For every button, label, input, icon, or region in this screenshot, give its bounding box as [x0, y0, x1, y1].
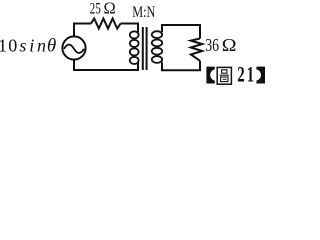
- svg-text:Ω: Ω: [222, 36, 237, 56]
- svg-text:Ω: Ω: [104, 0, 116, 18]
- wire bottom-left segment: [74, 60, 138, 70]
- wire top-left segment: [74, 24, 91, 37]
- svg-text:10sinθ: 10sinθ: [0, 36, 56, 57]
- resistor R2 36ohm zigzag: [191, 39, 202, 61]
- resistor R1 25ohm zigzag: [91, 19, 121, 29]
- AC source sine wave: [64, 45, 84, 53]
- transformer T1 core bars: [143, 27, 147, 70]
- figure caption right lenticular bracket: [256, 67, 265, 84]
- figure caption CJK character tu (figure): [217, 67, 231, 84]
- wire top mid segment to transformer primary: [121, 24, 138, 33]
- inductor L2 secondary winding: [152, 31, 162, 63]
- svg-text:36: 36: [205, 37, 219, 56]
- svg-text:M:N: M:N: [132, 5, 155, 22]
- svg-text:21: 21: [237, 63, 256, 87]
- figure caption left lenticular bracket: [206, 67, 214, 84]
- AC source V1 circle: [62, 36, 85, 59]
- wire secondary top segment: [162, 25, 200, 39]
- inductor L1 primary winding: [130, 31, 139, 64]
- svg-text:25: 25: [90, 0, 101, 17]
- wire secondary bottom segment: [162, 61, 200, 70]
